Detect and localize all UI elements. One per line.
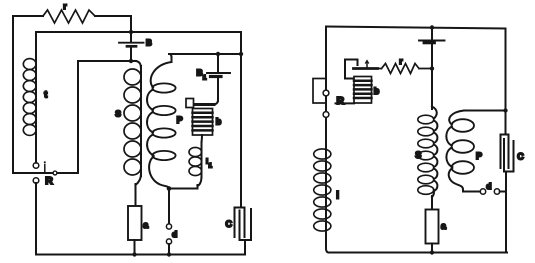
svg-text:d: d — [172, 229, 177, 239]
wire P-top horizontal y54 — [169, 53, 241, 55]
svg-text:r: r — [63, 1, 67, 11]
transmitter lid (left) — [193, 103, 214, 106]
wire left outer vertical — [13, 16, 29, 173]
wire P junction to d — [168, 189, 170, 225]
wire b to I1 — [201, 135, 204, 144]
wire left edge (right circuit) — [326, 27, 329, 253]
node junction S-top — [129, 59, 133, 63]
svg-text:B: B — [197, 67, 203, 77]
wire key to S-top y61 — [78, 60, 136, 62]
wire top-left outer — [13, 15, 131, 17]
wire key lower to bottom — [35, 183, 37, 255]
key R contact bar — [25, 161, 78, 187]
svg-text:b: b — [374, 86, 380, 96]
resistor r (right) — [378, 56, 433, 73]
battery B1 — [197, 54, 231, 101]
wire bottom (right circuit) — [329, 252, 507, 254]
key R lower contact circle — [33, 178, 39, 184]
node junction battery top (right) — [430, 25, 434, 29]
key base box R (right) — [313, 79, 326, 104]
wire key riser x78 — [77, 61, 79, 173]
wire bottom (left circuit) — [36, 254, 245, 256]
battery B — [119, 16, 152, 61]
svg-text:i: i — [336, 191, 339, 202]
inductor i — [314, 149, 340, 231]
svg-text:B: B — [146, 38, 152, 47]
transmitter b hatched block (right) — [354, 77, 380, 104]
node junction P top right edge — [503, 108, 507, 112]
capacitor C (right) — [501, 135, 525, 172]
node junction at battery top wire — [129, 30, 133, 34]
wire capacitor to bottom — [244, 240, 246, 255]
resistor r (left) — [43, 1, 95, 23]
inductor t — [23, 32, 47, 163]
node junction B1 top — [216, 52, 220, 56]
wire right edge upper (right circuit) — [505, 29, 507, 135]
node junction right edge y54 — [239, 52, 243, 56]
wire B1 to transmitter lid — [213, 100, 218, 105]
key contact circle lower (right) — [323, 112, 329, 118]
key contact circle upper (right) — [323, 90, 329, 96]
resistor box a — [128, 206, 149, 240]
svg-text:R: R — [45, 175, 53, 187]
key stub from b block — [336, 95, 355, 107]
svg-text:C: C — [517, 151, 524, 161]
inductor I1 — [169, 142, 213, 189]
inductor S (right) — [415, 69, 437, 210]
node bottom below a — [132, 252, 136, 256]
transmitter lid (right) — [354, 67, 378, 70]
svg-text:P: P — [177, 115, 183, 125]
svg-text:C: C — [226, 219, 233, 229]
inductor P (left) — [147, 54, 183, 189]
svg-text:1: 1 — [209, 164, 213, 170]
current arrow into lid — [366, 61, 369, 68]
svg-text:S: S — [115, 109, 121, 119]
node bottom below d — [167, 252, 171, 256]
svg-text:a: a — [143, 220, 149, 230]
wire inner horizontal y32 — [36, 31, 241, 33]
node junction P-bottom — [167, 186, 172, 191]
wire d to right edge — [500, 191, 506, 193]
svg-text:1: 1 — [203, 74, 207, 81]
wire a to bottom — [134, 240, 136, 255]
node bottom below g — [430, 250, 434, 254]
wire right edge (left circuit) — [240, 32, 242, 207]
inductor P (right) — [446, 111, 482, 192]
svg-text:t: t — [44, 90, 47, 100]
svg-text:r: r — [399, 56, 403, 66]
terminal d upper circle (left) — [166, 224, 171, 229]
wire P top horizontal (right) — [464, 110, 506, 112]
resistor box g — [426, 210, 448, 244]
wire right edge lower (right circuit) — [497, 172, 507, 253]
node junction resistor-battery (right) — [430, 66, 434, 70]
capacitor C (left) — [226, 208, 252, 241]
terminal d circle left (right circuit) — [480, 181, 491, 194]
transmitter bracket (right) — [345, 60, 358, 79]
terminal d circle right (right circuit) — [494, 189, 499, 194]
wire g to bottom — [431, 244, 433, 253]
terminal d lower circle (left) — [166, 229, 177, 244]
svg-text:b: b — [216, 117, 222, 127]
svg-text:P: P — [476, 151, 482, 161]
transmitter b hatched block (left) — [193, 109, 222, 136]
transmitter button (left) — [186, 99, 194, 108]
key R upper contact circle — [33, 163, 39, 169]
svg-text:S: S — [415, 150, 421, 160]
svg-text:a: a — [441, 221, 447, 231]
wire top (right circuit) — [326, 27, 506, 29]
inductor S (left) — [115, 61, 141, 206]
svg-text:R: R — [337, 95, 345, 107]
svg-text:d: d — [486, 181, 491, 191]
battery (right) — [419, 28, 445, 69]
wire d to bottom — [168, 244, 170, 255]
